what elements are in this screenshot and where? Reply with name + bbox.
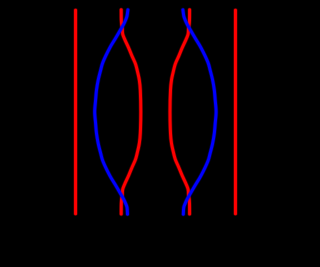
red bulging trajectory (right inner) — [170, 10, 190, 214]
blue lens trajectory (right) — [183, 10, 216, 214]
red straight trajectory (left outer) — [73, 10, 77, 214]
blue lens trajectory (left) — [95, 10, 128, 214]
red straight trajectory (right outer) — [233, 10, 237, 214]
red bulging trajectory (left inner) — [121, 10, 141, 214]
